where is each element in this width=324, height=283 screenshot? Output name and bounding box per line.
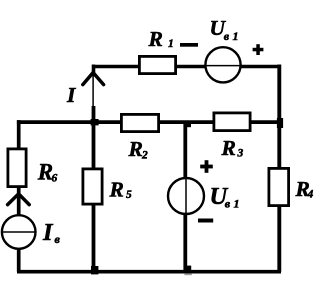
resistor R3: [214, 113, 250, 131]
resistor R6: [8, 149, 26, 187]
svg-text:I: I: [42, 219, 54, 246]
svg-text:5: 5: [126, 189, 132, 201]
svg-text:1: 1: [168, 38, 174, 50]
resistor R5: [83, 169, 102, 204]
svg-text:в: в: [224, 29, 230, 43]
svg-text:R: R: [109, 178, 124, 202]
svg-text:I: I: [66, 83, 76, 107]
svg-text:3: 3: [237, 148, 244, 160]
svg-text:6: 6: [52, 173, 58, 185]
junction bus-branch3: [185, 121, 191, 128]
svg-text:4: 4: [307, 189, 314, 201]
arrow current I on branch2: [83, 73, 104, 85]
wire branch2 corner stub: [92, 65, 96, 75]
wire middle bus horizontal: [17, 120, 281, 124]
minus sign (top source): [180, 43, 198, 47]
junction bottom-branch3: [185, 266, 191, 273]
svg-text:в: в: [225, 197, 231, 211]
svg-text:в: в: [55, 232, 61, 246]
wire left branch vertical: [17, 120, 21, 272]
wire branch2 thin segment: [92, 73, 94, 108]
svg-text:R: R: [128, 137, 143, 161]
junction bus-branch2: [91, 119, 99, 125]
junction bus-right wire: [277, 118, 283, 128]
minus sign (middle source): [198, 219, 213, 223]
svg-text:R: R: [221, 136, 236, 160]
wire branch3 vertical: [183, 122, 187, 272]
wire bottom horizontal: [17, 270, 281, 274]
svg-text:R: R: [148, 27, 163, 51]
plus sign (middle source): [200, 160, 213, 173]
svg-text:1: 1: [234, 197, 240, 211]
current source I_v arrow: [8, 194, 30, 205]
junction bottom-branch2: [91, 266, 98, 274]
svg-text:1: 1: [233, 29, 239, 43]
resistor R4: [269, 168, 289, 205]
voltage source U_v1 (top): [205, 47, 241, 82]
resistor R2: [121, 114, 158, 131]
current source I_v (left): [2, 215, 36, 249]
resistor R1: [139, 56, 175, 73]
wire branch2 vertical: [92, 106, 96, 272]
voltage source U_v2 (middle): [168, 178, 204, 214]
wire right vertical: [277, 65, 281, 272]
plus sign (top source): [253, 44, 264, 55]
wire top horizontal: [94, 65, 280, 69]
svg-text:2: 2: [141, 150, 148, 162]
